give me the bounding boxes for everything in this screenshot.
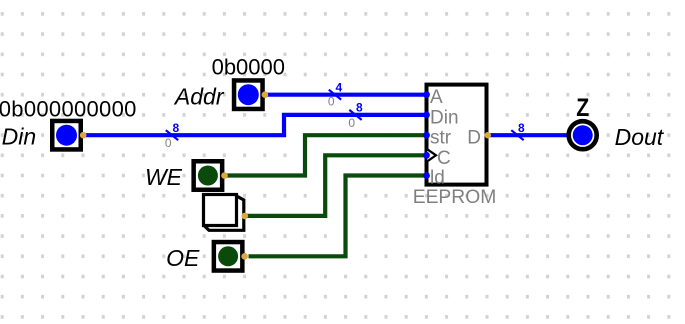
- input pin WE: [145, 161, 228, 190]
- wire Din pin to EEPROM Din: [83, 115, 427, 135]
- svg-text:0: 0: [328, 95, 335, 109]
- svg-text:str: str: [430, 128, 452, 149]
- svg-text:C: C: [437, 148, 451, 169]
- input pin Addr: [173, 55, 285, 110]
- wire button to EEPROM C: [246, 155, 427, 216]
- input pin Din: [0, 96, 137, 149]
- svg-text:8: 8: [173, 121, 180, 135]
- wire EEPROM D to Dout: [487, 133, 572, 137]
- port dot A: [423, 91, 430, 98]
- value Z (high impedance): [576, 93, 589, 121]
- svg-text:Z: Z: [576, 93, 589, 121]
- output pin Dout: [569, 93, 665, 150]
- svg-text:Dout: Dout: [615, 124, 665, 150]
- port dot C: [423, 152, 430, 159]
- svg-text:WE: WE: [145, 164, 183, 190]
- wire WE to EEPROM str: [224, 135, 426, 175]
- svg-text:0b0000: 0b0000: [212, 55, 285, 80]
- wire Addr to EEPROM A: [265, 93, 427, 97]
- svg-text:EEPROM: EEPROM: [413, 187, 497, 208]
- port dot D: [485, 132, 491, 138]
- svg-text:ld: ld: [430, 167, 445, 188]
- port dot Din: [423, 112, 430, 119]
- svg-text:D: D: [467, 128, 481, 149]
- port dot ld: [423, 172, 430, 179]
- clock wedge on C pin: [427, 149, 436, 161]
- wire OE to EEPROM ld: [249, 176, 427, 257]
- svg-text:Addr: Addr: [173, 84, 225, 110]
- svg-text:Din: Din: [2, 123, 37, 149]
- push button: [204, 195, 249, 231]
- bus width marker 8 on Din pin wire: [165, 121, 180, 150]
- svg-text:8: 8: [518, 121, 525, 135]
- svg-text:8: 8: [356, 101, 363, 115]
- bus width marker 4 on Addr wire: [328, 81, 343, 109]
- svg-text:A: A: [430, 87, 443, 108]
- input pin OE: [166, 242, 248, 271]
- svg-text:OE: OE: [166, 245, 200, 271]
- bus width marker 8 on D wire: [511, 121, 525, 140]
- svg-text:0b000000000: 0b000000000: [0, 96, 137, 121]
- bus width marker 8 on EEPROM Din wire: [348, 101, 363, 130]
- svg-text:0: 0: [165, 136, 172, 150]
- port dot str: [423, 132, 430, 139]
- svg-text:4: 4: [336, 81, 343, 95]
- svg-text:Din: Din: [430, 107, 459, 128]
- EEPROM U1: [413, 85, 497, 208]
- svg-text:0: 0: [348, 116, 355, 130]
